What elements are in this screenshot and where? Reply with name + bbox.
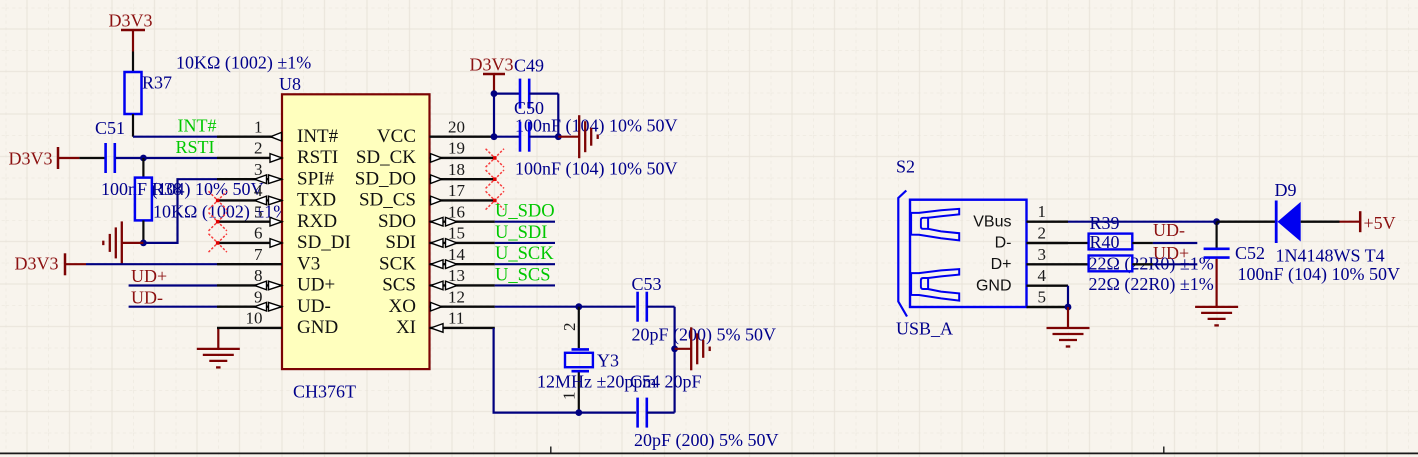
svg-text:1: 1: [254, 117, 263, 136]
capacitor C54: [638, 398, 675, 428]
power D3V3 (V3 pin): [15, 253, 87, 275]
svg-text:R37: R37: [142, 73, 172, 93]
svg-text:SCS: SCS: [382, 275, 416, 296]
svg-text:UD+: UD+: [297, 275, 335, 296]
junction crystal ground: [671, 345, 678, 352]
resistor R37: [125, 52, 142, 137]
C54 designator overlap text: [630, 372, 702, 392]
resistor R39: [1068, 234, 1197, 250]
svg-text:7: 7: [254, 245, 263, 264]
svg-text:CH376T: CH376T: [293, 382, 356, 402]
svg-text:100nF (104) 10% 50V: 100nF (104) 10% 50V: [515, 116, 678, 137]
connector S2 USB_A body: [898, 191, 1026, 317]
svg-text:13: 13: [448, 266, 465, 285]
svg-text:+5V: +5V: [1364, 213, 1396, 233]
no-connect X pin 18: [486, 170, 504, 188]
svg-text:UD+: UD+: [1153, 243, 1189, 263]
no-connect X pin 17: [486, 191, 504, 209]
wire C49 right down to VCC row: [557, 94, 559, 137]
svg-text:UD-: UD-: [131, 287, 163, 307]
svg-text:U_SCS: U_SCS: [495, 265, 551, 285]
ground (U8 GND pin 10): [197, 328, 240, 367]
R38 designator: [152, 179, 182, 199]
power +5V: [1340, 211, 1396, 233]
C52 designator: [1235, 243, 1265, 263]
net label UD+ (right): [1153, 243, 1189, 263]
wire RSTI net: [116, 157, 217, 159]
net label UD+ (left): [131, 266, 167, 286]
net label U_SDI: [495, 223, 547, 243]
svg-text:9: 9: [254, 287, 263, 306]
wire SPI# to ground node: [143, 179, 217, 243]
R38 value 10K: [153, 202, 288, 223]
D9 value 1N4148WS T4: [1276, 246, 1385, 266]
U8 pin 17 (SD_CS): [359, 181, 495, 211]
capacitor C49: [494, 79, 558, 109]
svg-text:SCK: SCK: [379, 253, 416, 274]
wire USB GND pin4 to pin5: [1067, 286, 1069, 307]
C54 value 20pF: [634, 430, 779, 451]
junction C50 right: [555, 133, 562, 140]
net label U_SDO: [495, 202, 555, 222]
IC U8 CH376T body: [282, 94, 430, 369]
capacitor C53: [638, 292, 675, 322]
svg-text:4: 4: [254, 181, 263, 200]
R37 designator: [142, 73, 172, 93]
U8 pin 12 (XO): [389, 287, 495, 317]
S2 pin 4 (GND): [976, 266, 1068, 294]
wire U_SCK net: [495, 263, 555, 265]
svg-text:R40: R40: [1090, 232, 1120, 252]
svg-text:S2: S2: [896, 157, 915, 177]
junction USB ground: [1065, 304, 1072, 311]
junction C49 top: [491, 90, 498, 97]
U8 pin 4 (TXD): [217, 181, 336, 211]
svg-text:11: 11: [448, 309, 464, 328]
svg-text:UD-: UD-: [297, 296, 331, 317]
svg-text:GND: GND: [297, 317, 338, 338]
capacitor C50: [494, 122, 558, 152]
svg-text:100nF (104) 10% 50V: 100nF (104) 10% 50V: [101, 179, 264, 200]
svg-text:22Ω (22R0) ±1%: 22Ω (22R0) ±1%: [1089, 274, 1214, 295]
svg-text:SD_CS: SD_CS: [359, 190, 416, 211]
svg-text:D9: D9: [1275, 180, 1297, 200]
S2 pin 1 (VBus): [973, 202, 1068, 230]
U8 pin 6 (SD_DI): [217, 224, 351, 254]
svg-text:5: 5: [1038, 288, 1047, 307]
svg-text:4: 4: [1038, 266, 1047, 285]
U8 pin 13 (SCS): [382, 266, 495, 296]
no-connect X pin 19: [486, 149, 504, 167]
C50 value 100nF: [515, 159, 678, 180]
U8 pin 2 (RSTI): [217, 139, 338, 169]
svg-text:1: 1: [560, 392, 579, 401]
ground (crystal, rotated right): [675, 327, 710, 370]
R37 value 10K: [176, 53, 311, 74]
junction VBus/C52/D9: [1213, 218, 1220, 225]
svg-text:D-: D-: [995, 235, 1012, 252]
S2 USB contact symbol lower: [911, 269, 959, 301]
wire U_SDO net: [495, 221, 555, 223]
S2 pin 3 (D+): [991, 245, 1068, 273]
svg-text:2: 2: [254, 139, 263, 158]
U8 designator: [279, 74, 301, 94]
svg-text:SDI: SDI: [385, 232, 416, 253]
svg-text:2: 2: [560, 323, 579, 332]
S2 pin 2 (D-): [995, 224, 1068, 252]
resistor R40: [1068, 256, 1197, 272]
svg-text:RSTI: RSTI: [176, 137, 215, 157]
no-connect X pin 5: [209, 213, 227, 231]
power D3V3 (top, R37 pull-up): [109, 11, 153, 52]
svg-text:5: 5: [254, 202, 263, 221]
svg-text:16: 16: [448, 202, 465, 221]
no-connect X pin 4: [209, 191, 227, 209]
svg-text:C51: C51: [95, 118, 125, 138]
svg-text:SD_CK: SD_CK: [356, 147, 416, 168]
ground (VCC decoupling, rotated right): [558, 115, 597, 158]
S2 USB contact symbol upper: [911, 209, 959, 241]
svg-text:20: 20: [448, 117, 465, 136]
net label INT#: [178, 116, 217, 136]
U8 pin 5 (RXD): [217, 202, 337, 232]
R40 designator: [1090, 232, 1120, 252]
wire VBus net: [1068, 221, 1217, 223]
Y3 pin number 2: [560, 323, 579, 332]
resistor R38: [135, 158, 152, 243]
C51 designator: [95, 118, 125, 138]
svg-text:3: 3: [254, 160, 263, 179]
ground (C52): [1195, 259, 1238, 326]
C49 value 100nF: [515, 116, 678, 137]
C50 designator: [514, 98, 544, 118]
C53 designator: [632, 274, 662, 294]
svg-text:D+: D+: [991, 256, 1012, 273]
svg-text:C53: C53: [632, 274, 662, 294]
svg-text:D3V3: D3V3: [470, 55, 514, 75]
Y3 designator: [597, 351, 619, 371]
U8 pin 15 (SDI): [385, 224, 494, 254]
svg-text:INT#: INT#: [178, 116, 217, 136]
svg-text:15: 15: [448, 224, 465, 243]
svg-text:1: 1: [1038, 202, 1047, 221]
U8 pin 1 (INT#): [217, 117, 339, 147]
svg-text:100nF (104) 10% 50V: 100nF (104) 10% 50V: [515, 159, 678, 180]
svg-text:12: 12: [448, 287, 465, 306]
junction XI/crystal: [575, 409, 582, 416]
svg-text:8: 8: [254, 266, 263, 285]
Y3 pin number 1: [560, 392, 579, 401]
svg-text:R39: R39: [1090, 213, 1120, 233]
wire U_SDI net: [495, 242, 555, 244]
S2 pin 5: [1027, 288, 1069, 308]
svg-text:14: 14: [448, 245, 466, 264]
net label RSTI: [176, 137, 215, 157]
svg-text:C52: C52: [1235, 243, 1265, 263]
wire UD- net (left): [129, 306, 217, 308]
R40 value 22R: [1089, 274, 1214, 295]
U8 part number CH376T: [293, 382, 356, 402]
U8 pin 9 (UD-): [217, 287, 331, 317]
C51 value 100nF: [101, 179, 264, 200]
net label U_SCK: [495, 244, 554, 264]
net label UD- (left): [131, 287, 163, 307]
wire XI net: [494, 328, 636, 413]
wire crystal right column: [673, 307, 675, 413]
svg-text:17: 17: [448, 181, 466, 200]
svg-text:UD-: UD-: [1153, 220, 1185, 240]
svg-text:D3V3: D3V3: [109, 11, 153, 31]
svg-text:3: 3: [1038, 245, 1047, 264]
svg-text:UD+: UD+: [131, 266, 167, 286]
power D3V3 (VCC decoupling): [470, 55, 514, 94]
diode D9 1N4148WS: [1217, 201, 1340, 244]
junction VCC/D3V3: [491, 133, 498, 140]
crystal Y3: [565, 307, 593, 413]
S2 part USB_A: [896, 319, 953, 339]
svg-text:C50: C50: [514, 98, 544, 118]
svg-text:SPI#: SPI#: [297, 168, 334, 189]
capacitor C51: [79, 143, 114, 173]
svg-text:C54 20pF: C54 20pF: [630, 372, 702, 392]
svg-text:USB_A: USB_A: [896, 319, 953, 339]
C53 value 20pF: [632, 325, 777, 346]
C49 designator: [514, 56, 544, 76]
svg-text:U_SDO: U_SDO: [495, 202, 555, 222]
U8 pin 18 (SD_DO): [355, 160, 495, 190]
svg-text:19: 19: [448, 139, 465, 158]
svg-text:TXD: TXD: [297, 190, 336, 211]
Y3 value 12MHz: [537, 372, 656, 392]
svg-text:XI: XI: [396, 317, 416, 338]
svg-text:SD_DI: SD_DI: [297, 232, 351, 253]
wire V3 net: [86, 263, 217, 265]
U8 pin 19 (SD_CK): [356, 139, 495, 169]
junction R38/ground: [140, 240, 147, 247]
svg-text:20pF (200) 5% 50V: 20pF (200) 5% 50V: [634, 430, 779, 451]
capacitor C52: [1204, 222, 1230, 258]
svg-text:SD_DO: SD_DO: [355, 168, 416, 189]
svg-text:Y3: Y3: [597, 351, 619, 371]
U8 pin 14 (SCK): [379, 245, 495, 275]
svg-text:U_SCK: U_SCK: [495, 244, 554, 264]
wire XO net: [495, 306, 636, 308]
D9 designator: [1275, 180, 1297, 200]
svg-text:18: 18: [448, 160, 465, 179]
U8 pin 16 (SDO): [378, 202, 495, 232]
svg-text:GND: GND: [976, 277, 1012, 294]
no-connect X pin 6: [209, 234, 227, 252]
wire D3V3 column to VCC: [493, 94, 495, 137]
svg-text:C49: C49: [514, 56, 544, 76]
svg-text:D3V3: D3V3: [9, 149, 53, 169]
svg-text:U_SDI: U_SDI: [495, 223, 547, 243]
sheet border: [0, 447, 1418, 454]
R39 value 22R: [1089, 254, 1214, 275]
net label UD- (right): [1153, 220, 1185, 240]
wire U_SCS net: [495, 284, 555, 286]
svg-text:V3: V3: [297, 253, 320, 274]
U8 pin 7 (V3): [217, 245, 320, 275]
wire UD+ net (left): [129, 284, 217, 286]
junction XO/crystal: [575, 303, 582, 310]
U8 pin 20 (VCC): [377, 117, 495, 147]
R39 designator: [1090, 213, 1120, 233]
net label U_SCS: [495, 265, 551, 285]
svg-text:VBus: VBus: [973, 213, 1011, 230]
svg-text:D3V3: D3V3: [15, 254, 59, 274]
U8 pin 3 (SPI#): [217, 160, 334, 190]
svg-text:10: 10: [246, 309, 263, 328]
svg-text:SDO: SDO: [378, 211, 416, 232]
svg-text:U8: U8: [279, 74, 301, 94]
U8 pin 8 (UD+): [217, 266, 335, 296]
svg-text:10KΩ (1002) ±1%: 10KΩ (1002) ±1%: [176, 53, 311, 74]
C52 value 100nF: [1238, 264, 1401, 285]
ground (R38, rotated left): [103, 221, 143, 264]
svg-text:VCC: VCC: [377, 126, 416, 147]
S2 designator: [896, 157, 915, 177]
svg-text:RSTI: RSTI: [297, 147, 338, 168]
svg-text:RXD: RXD: [297, 211, 337, 232]
ground (USB shell): [1047, 307, 1090, 347]
svg-text:100nF (104) 10% 50V: 100nF (104) 10% 50V: [1238, 264, 1401, 285]
svg-text:XO: XO: [389, 296, 416, 317]
junction RSTI/R38: [140, 155, 147, 162]
wire INT# net: [133, 136, 217, 138]
U8 pin 11 (XI): [396, 309, 495, 339]
svg-text:2: 2: [1038, 224, 1047, 243]
svg-text:6: 6: [254, 224, 263, 243]
svg-text:INT#: INT#: [297, 126, 339, 147]
U8 pin 10 (GND): [217, 309, 338, 339]
power D3V3 (C51 left): [9, 147, 80, 169]
svg-text:1N4148WS T4: 1N4148WS T4: [1276, 246, 1385, 266]
